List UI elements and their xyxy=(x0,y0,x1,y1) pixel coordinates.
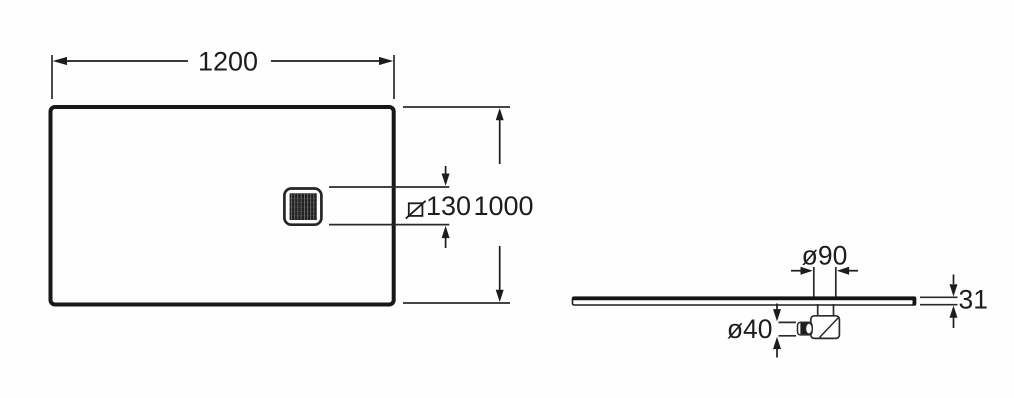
dimension 130 lower arrow xyxy=(442,226,450,248)
dimension ø90 left arrow xyxy=(791,267,813,275)
label 31 xyxy=(959,285,988,315)
label square symbol of 130 xyxy=(406,201,426,219)
extension tick ø40 top xyxy=(779,321,797,323)
label ø40 xyxy=(727,314,773,344)
dimension 130 upper arrow xyxy=(442,166,450,186)
label 130 xyxy=(426,191,471,221)
svg-text:130: 130 xyxy=(426,191,471,221)
extension line 31 top xyxy=(920,296,958,298)
extension line 1200 left xyxy=(51,55,53,99)
dimension 31 upper arrow xyxy=(950,275,958,297)
drain outer frame xyxy=(284,189,321,225)
extension line 1200 right xyxy=(393,55,395,99)
extension line 31 bottom xyxy=(920,304,958,306)
label 1200 xyxy=(198,47,258,77)
label ø90 xyxy=(802,241,848,271)
extension line drain top edge xyxy=(329,186,449,188)
dimension 31 lower arrow xyxy=(950,306,958,329)
svg-text:ø90: ø90 xyxy=(802,241,848,271)
extension line 1000 bottom xyxy=(403,302,510,304)
svg-text:ø40: ø40 xyxy=(727,314,773,344)
drain trap body xyxy=(811,316,840,339)
extension line ø90 left xyxy=(813,267,815,297)
extension line 1000 top xyxy=(403,106,510,108)
drain trap outlet pipe xyxy=(798,322,813,335)
drain trap neck xyxy=(818,304,834,316)
dimension ø40 lower arrow xyxy=(773,337,781,358)
drain grate xyxy=(290,193,317,220)
tray plan outline xyxy=(51,107,394,305)
svg-text:31: 31 xyxy=(959,285,988,315)
dimension line 1000 lower segment with arrow xyxy=(496,246,504,302)
dimension ø90 right arrow xyxy=(837,267,858,275)
dimension ø40 upper arrow xyxy=(773,304,781,322)
dimension line 1200 right segment with arrow xyxy=(271,57,393,65)
label 1000 xyxy=(473,191,533,221)
dimension line 1000 upper segment with arrow xyxy=(496,108,504,164)
svg-text:1200: 1200 xyxy=(198,47,258,77)
dimension line 1200 left segment with arrow xyxy=(53,57,188,65)
extension line drain bottom edge xyxy=(329,224,449,226)
svg-text:1000: 1000 xyxy=(473,191,533,221)
extension line ø90 right xyxy=(835,267,837,297)
tray side profile xyxy=(573,297,917,306)
extension tick ø40 bottom xyxy=(779,335,797,337)
